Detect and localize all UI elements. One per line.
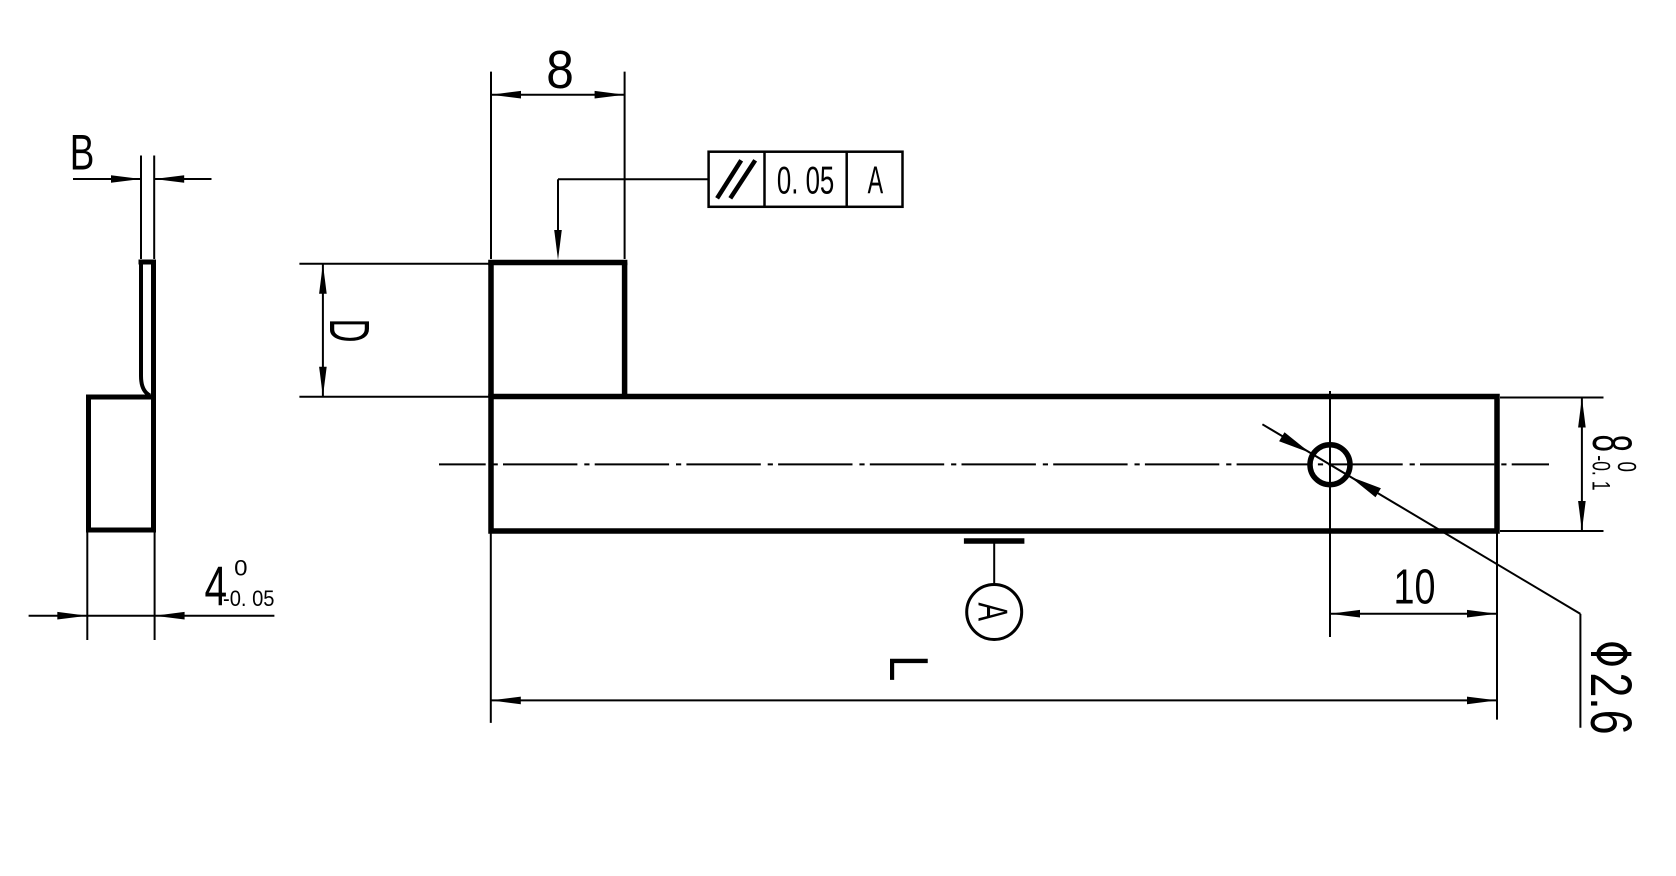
dim 10 arrow left [1330, 610, 1360, 618]
svg-text:-0. 1: -0. 1 [1587, 455, 1615, 490]
dim L dimension line [491, 699, 1497, 701]
datum A target bar [964, 538, 1025, 544]
datum A circle [967, 585, 1022, 640]
parallelism leader vertical [557, 179, 559, 234]
dim B dimension line left part [73, 178, 141, 180]
bar centerline [439, 463, 1549, 465]
dim 4 extension line left [86, 533, 88, 641]
side view flange left edge with fillet [141, 265, 150, 396]
dim 4 dimension line [29, 615, 275, 617]
dim L arrow right [1467, 697, 1497, 705]
dim 8 arrow right [595, 91, 625, 99]
dim B arrow left [111, 175, 141, 183]
dim B dimension line right part [154, 178, 211, 180]
main boss top edge [488, 260, 627, 266]
dim 8h arrow top [1578, 398, 1586, 428]
svg-text:2.6: 2.6 [1578, 673, 1643, 735]
main boss left edge [488, 263, 494, 397]
hole diameter label phi symbol ellipse [1598, 644, 1625, 664]
svg-text:8: 8 [1581, 435, 1643, 453]
dim 10 arrow right [1467, 610, 1497, 618]
dim 8h extension line top [1500, 397, 1604, 399]
dim B extension line left [140, 156, 142, 260]
parallelism symbol slash 1 [717, 160, 741, 198]
svg-text:0. 05: 0. 05 [777, 160, 834, 203]
dim 8 extension line right [624, 72, 626, 259]
svg-text:8: 8 [546, 40, 574, 100]
dim 8h extension line bottom [1500, 530, 1604, 532]
dim 8 arrow left [491, 91, 521, 99]
dim B extension line right [153, 156, 155, 260]
dim 8 extension line left [490, 72, 492, 259]
svg-text:0: 0 [234, 555, 247, 580]
datum A stem [993, 544, 995, 586]
svg-text:A: A [970, 603, 1016, 622]
main boss right edge [622, 263, 628, 397]
dim 4 arrow right [155, 612, 185, 620]
dim 10 dimension line [1330, 613, 1497, 615]
dim 8h arrow bottom [1578, 501, 1586, 531]
svg-text:-0. 05: -0. 05 [223, 586, 275, 611]
dim D dimension line [322, 264, 324, 397]
side view flange right edge [151, 262, 156, 397]
side view base body [89, 397, 154, 530]
dim 4 extension line right [154, 533, 156, 641]
svg-text:D: D [318, 319, 381, 343]
side view flange top cap [139, 260, 157, 265]
hole leader arrow upper [1279, 432, 1310, 453]
parallelism leader horizontal [558, 178, 709, 180]
feature control frame divider 1 [763, 152, 766, 207]
dim D arrow bottom [319, 367, 327, 397]
svg-text:10: 10 [1394, 561, 1436, 615]
parallelism symbol slash 2 [730, 160, 755, 198]
hole vertical centerline [1329, 391, 1331, 637]
dim L extension line left [490, 534, 492, 723]
parallelism leader arrow [554, 230, 562, 260]
svg-text:A: A [868, 160, 884, 203]
dim 8h dimension line [1581, 398, 1583, 532]
dim D arrow top [319, 264, 327, 294]
hole leader diagonal [1262, 424, 1580, 614]
hole diameter label phi symbol bar [1591, 652, 1631, 656]
dim 10 extension line right [1496, 534, 1498, 720]
dim 8 dimension line [491, 94, 625, 96]
dim B arrow right [154, 175, 184, 183]
hole circle [1310, 445, 1350, 485]
dim D extension line bottom [299, 396, 488, 398]
hole leader arrow lower [1350, 477, 1381, 498]
feature control frame box [709, 152, 903, 207]
svg-text:B: B [70, 123, 95, 180]
dim D extension line top [299, 263, 488, 265]
svg-text:0: 0 [1612, 462, 1642, 473]
main bar body [491, 397, 1497, 532]
svg-text:L: L [878, 655, 940, 682]
dim 4 arrow left [57, 612, 87, 620]
dim L arrow left [491, 697, 521, 705]
hole leader vertical tail [1579, 614, 1581, 728]
feature control frame divider 2 [845, 152, 848, 207]
